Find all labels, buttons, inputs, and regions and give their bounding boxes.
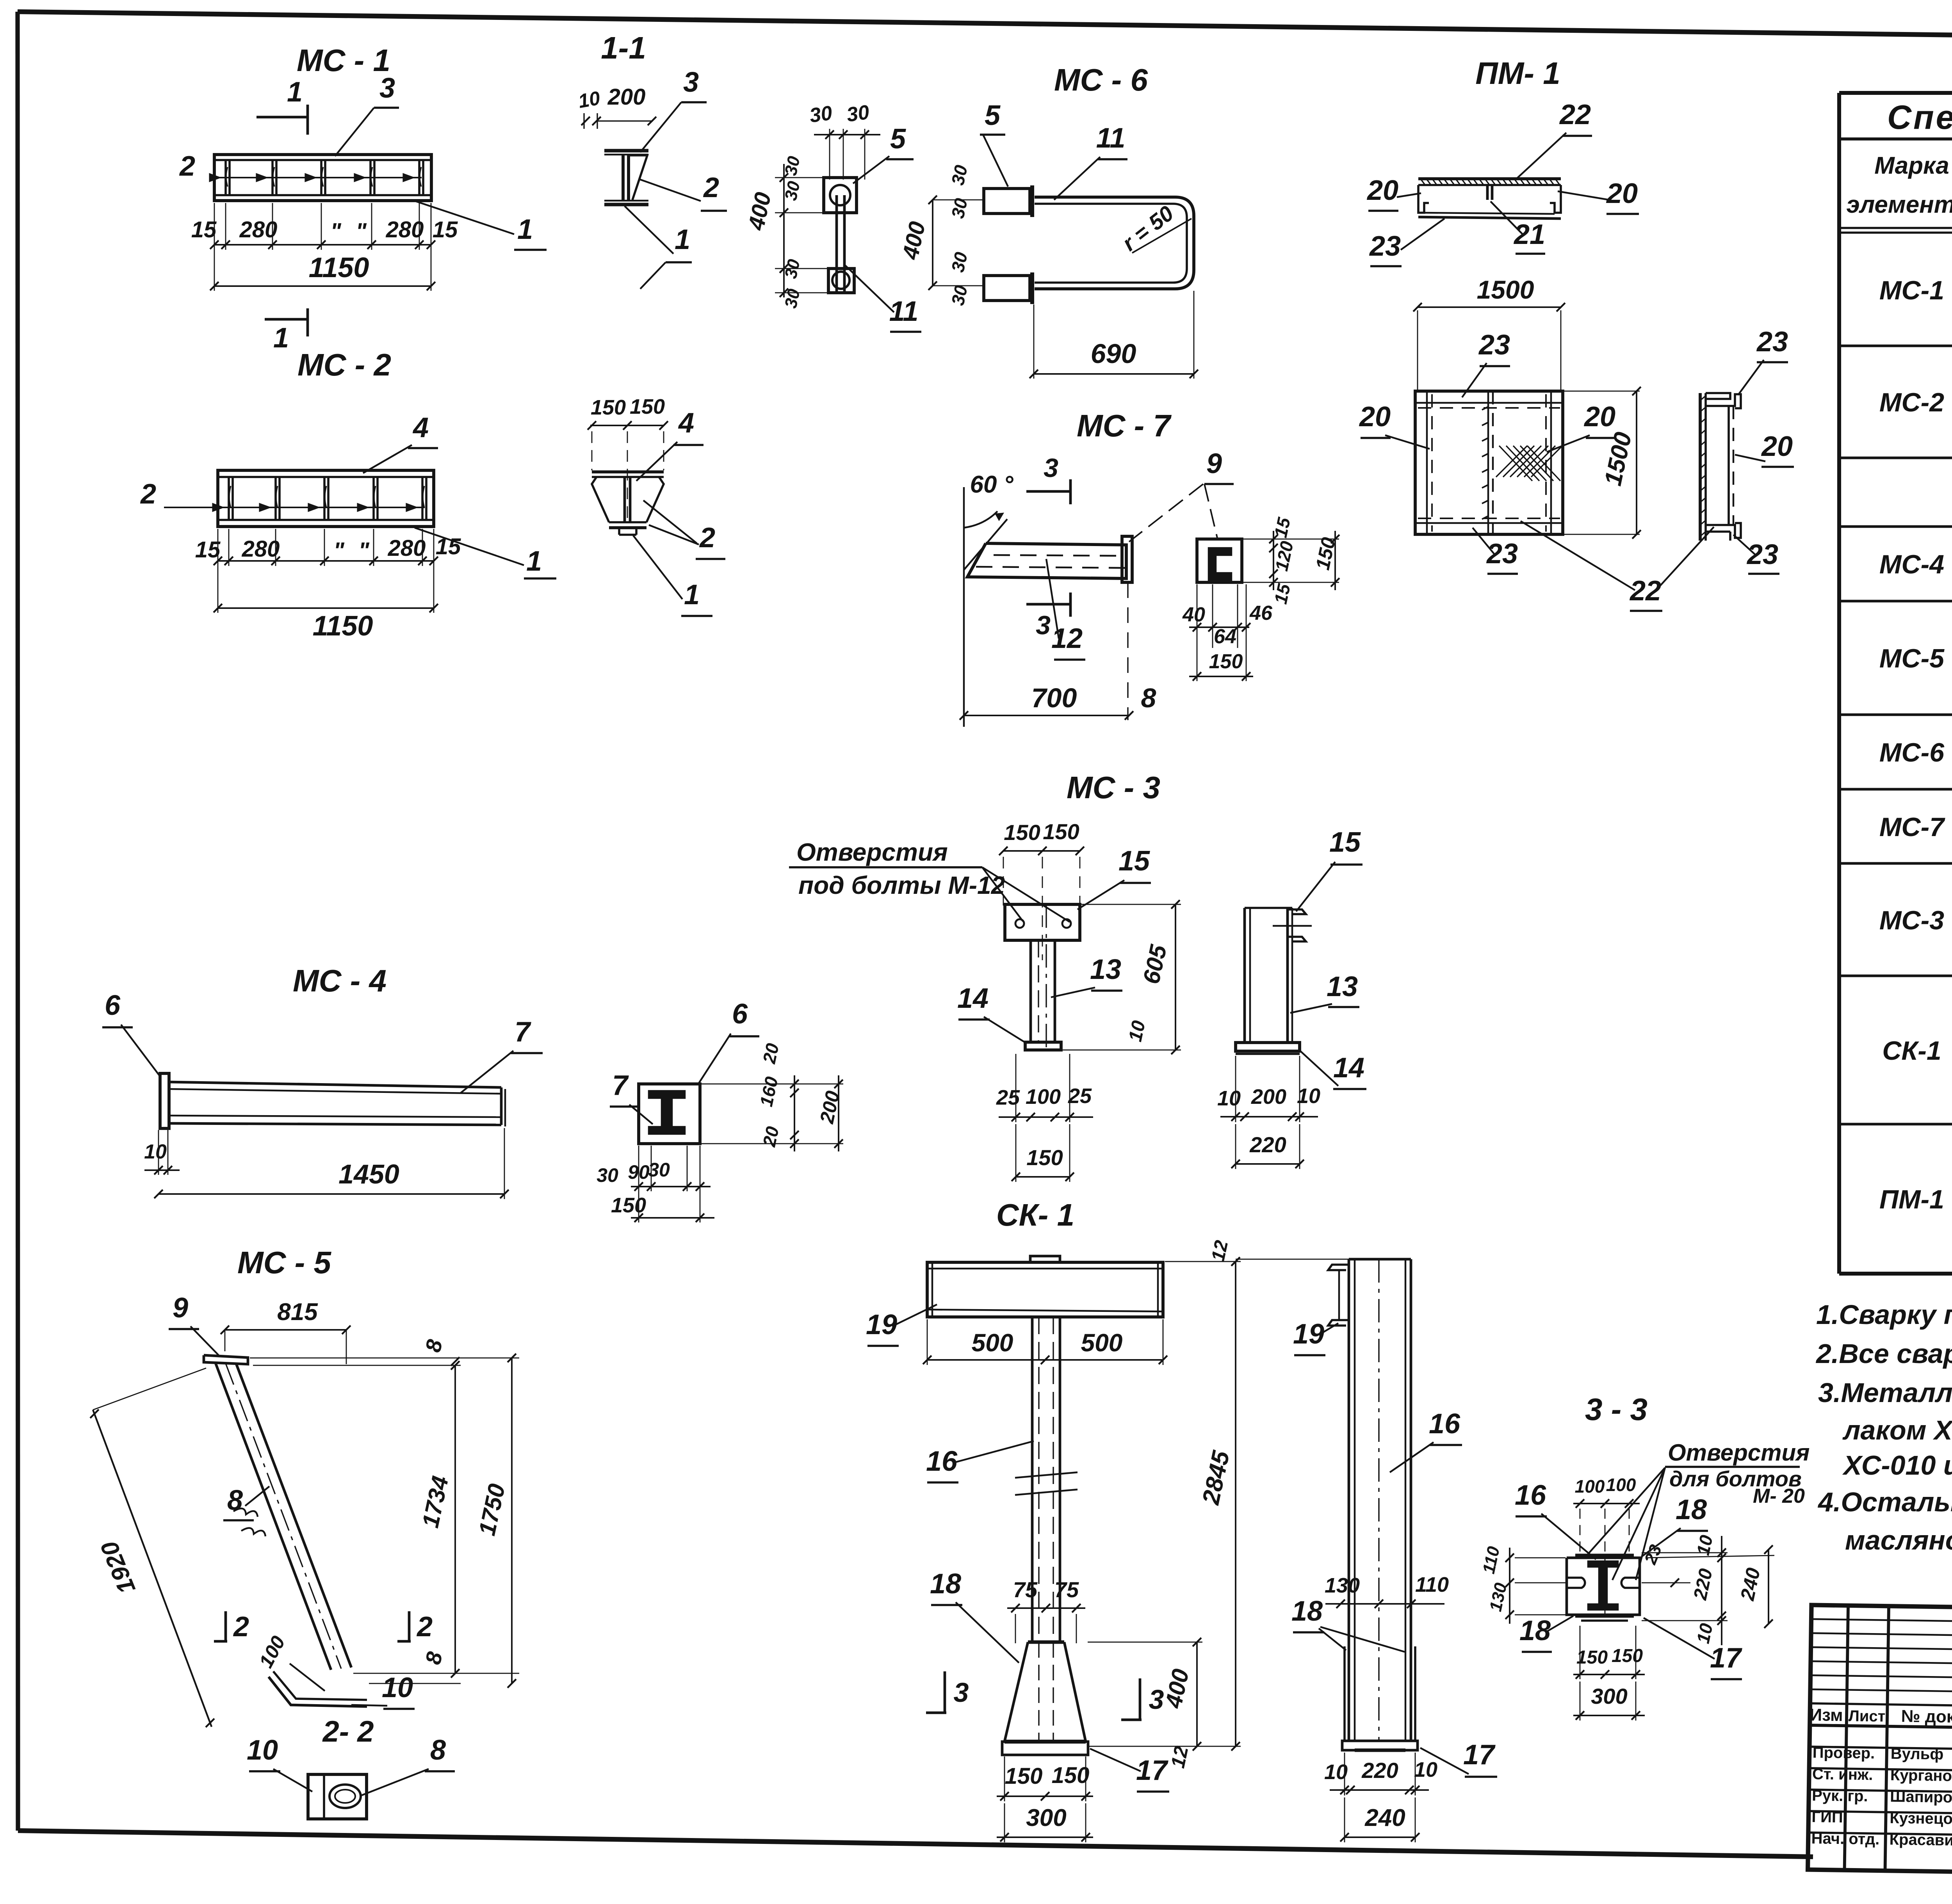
svg-text:15: 15 bbox=[195, 537, 221, 562]
svg-text:15: 15 bbox=[191, 217, 217, 242]
svg-text:60 °: 60 ° bbox=[970, 471, 1014, 498]
PM-1 elevation chequer plate pos22 hatch bbox=[1418, 177, 1561, 180]
CK-1 side base pos17 bbox=[1342, 1741, 1418, 1750]
svg-text:12: 12 bbox=[1167, 1744, 1192, 1770]
svg-text:": " bbox=[330, 219, 342, 244]
svg-text:100: 100 bbox=[1606, 1475, 1636, 1495]
svg-text:Изм: Изм bbox=[1810, 1705, 1843, 1725]
MC-4 beam pos7 bbox=[169, 1082, 501, 1087]
MC-5 dim 1750 bbox=[511, 1358, 513, 1683]
svg-text:100: 100 bbox=[1026, 1085, 1061, 1109]
svg-text:3: 3 bbox=[1036, 610, 1051, 640]
MC-1 stiffeners pos2 bbox=[224, 161, 227, 195]
svg-text:МС-6: МС-6 bbox=[1879, 738, 1945, 767]
3-3 dims 150 150 bbox=[1573, 1674, 1645, 1675]
PM-1 plan inner angle lines bbox=[1426, 391, 1428, 534]
3-3 side notches bbox=[1567, 1578, 1585, 1588]
CK-1 top beam pos19 bbox=[927, 1262, 1163, 1317]
svg-text:Вульф: Вульф bbox=[1890, 1745, 1943, 1763]
svg-text:3.Металлические марки МС-1 ÷ М: 3.Металлические марки МС-1 ÷ МС-6 окраши… bbox=[1818, 1377, 1952, 1408]
svg-text:МС-2: МС-2 bbox=[1879, 388, 1944, 417]
CK-1 top cap plate bbox=[1030, 1256, 1060, 1262]
MC-3 dims 150 150 bbox=[1003, 850, 1080, 852]
MC-3 base plate pos14 bbox=[1025, 1042, 1061, 1050]
svg-text:МС - 2: МС - 2 bbox=[297, 347, 391, 382]
svg-text:23: 23 bbox=[1369, 231, 1401, 262]
svg-text:10: 10 bbox=[144, 1141, 167, 1163]
PM-1 elevation frame pos20 bbox=[1418, 185, 1429, 213]
svg-text:30: 30 bbox=[808, 101, 834, 127]
MC-3 top plate pos15 bbox=[1005, 904, 1080, 940]
PM-1 plan outer square bbox=[1415, 391, 1563, 534]
MC-2 stiffeners pos2 bbox=[228, 478, 230, 519]
page border frame bbox=[18, 12, 1952, 44]
svg-text:ПМ-1: ПМ-1 bbox=[1879, 1185, 1944, 1214]
MC-3 side clip pos15 bbox=[1288, 909, 1306, 914]
svg-text:9: 9 bbox=[173, 1292, 188, 1324]
svg-text:Лист: Лист bbox=[1849, 1707, 1886, 1725]
svg-text:150: 150 bbox=[591, 396, 626, 419]
CK-1 dim 400 bbox=[1196, 1642, 1198, 1746]
1-1 I-beam section pos1 bbox=[604, 149, 648, 153]
svg-text:ГИП: ГИП bbox=[1811, 1808, 1843, 1826]
svg-text:1150: 1150 bbox=[313, 610, 373, 642]
title block bbox=[1807, 1605, 1952, 1900]
svg-text:МС-3: МС-3 bbox=[1879, 906, 1944, 935]
3-3 top plate pos17 bbox=[1575, 1554, 1634, 1557]
svg-text:150: 150 bbox=[1052, 1763, 1090, 1788]
PM-1 plan dim 1500 top bbox=[1418, 306, 1561, 308]
3-3 bottom plate bbox=[1575, 1614, 1634, 1618]
MC-1 section mark 1 lower bbox=[265, 318, 308, 321]
svg-text:МС - 6: МС - 6 bbox=[1054, 62, 1148, 97]
svg-text:12: 12 bbox=[1208, 1238, 1232, 1263]
svg-text:22: 22 bbox=[1559, 99, 1591, 130]
svg-text:10: 10 bbox=[1125, 1019, 1149, 1044]
svg-text:220: 220 bbox=[1249, 1132, 1286, 1157]
PM-1 plan dashed lines bbox=[1431, 394, 1433, 532]
svg-text:4.Остальные металлоконтрукции: 4.Остальные металлоконтрукции покрасить bbox=[1817, 1487, 1952, 1517]
svg-text:МС-1: МС-1 bbox=[1879, 276, 1944, 305]
svg-text:300: 300 bbox=[1026, 1804, 1066, 1831]
CK-1 side clip pos19 bbox=[1328, 1265, 1349, 1270]
MC-5 dim 1734 bbox=[454, 1365, 456, 1673]
svg-text:1: 1 bbox=[684, 579, 700, 610]
bolt bottom plate pos5 bbox=[828, 269, 854, 293]
MC-7 channel body pos12 bbox=[967, 543, 1126, 578]
svg-text:8: 8 bbox=[227, 1485, 243, 1516]
MC-5 tube break marks bbox=[233, 1509, 258, 1517]
svg-text:10: 10 bbox=[577, 87, 602, 112]
svg-text:под болты М-12: под болты М-12 bbox=[798, 871, 1005, 899]
svg-text:Красавин: Красавин bbox=[1889, 1831, 1952, 1849]
svg-text:Курганова: Курганова bbox=[1890, 1767, 1952, 1785]
CK-1 base plate pos17 bbox=[1002, 1742, 1088, 1755]
svg-text:МС - 7: МС - 7 bbox=[1077, 408, 1172, 443]
svg-text:МС - 3: МС - 3 bbox=[1067, 770, 1160, 805]
MC-7 dims below box bbox=[1189, 626, 1249, 628]
MC-4 dim 1450 bbox=[159, 1193, 504, 1195]
svg-text:МС - 5: МС - 5 bbox=[237, 1245, 332, 1280]
svg-text:лаком ХСЛ или ХС- 26 за 3р: лаком ХСЛ или ХС- 26 за 3раза по огрунто… bbox=[1842, 1415, 1952, 1445]
svg-text:1: 1 bbox=[675, 224, 690, 255]
svg-text:690: 690 bbox=[1091, 338, 1136, 369]
svg-text:2: 2 bbox=[416, 1611, 433, 1642]
svg-text:240: 240 bbox=[1364, 1804, 1405, 1831]
MC-5 top plate pos9 bbox=[204, 1355, 248, 1364]
3-3 dim 300 bbox=[1573, 1715, 1645, 1716]
svg-text:МС - 4: МС - 4 bbox=[293, 963, 386, 998]
svg-text:18: 18 bbox=[1291, 1596, 1323, 1627]
svg-text:75: 75 bbox=[1054, 1577, 1079, 1602]
svg-text:18: 18 bbox=[1676, 1494, 1707, 1525]
svg-text:7: 7 bbox=[612, 1070, 629, 1101]
MC-1 beam body bbox=[214, 155, 431, 201]
svg-text:4: 4 bbox=[412, 412, 429, 443]
svg-text:280: 280 bbox=[386, 217, 424, 242]
MC-7 end plate pos9 bbox=[1122, 536, 1132, 582]
svg-text:150: 150 bbox=[1004, 820, 1040, 845]
svg-text:": " bbox=[358, 538, 370, 563]
svg-text:20: 20 bbox=[1366, 175, 1398, 206]
svg-text:15: 15 bbox=[436, 534, 461, 559]
svg-text:16: 16 bbox=[926, 1446, 958, 1477]
svg-text:15: 15 bbox=[433, 217, 458, 242]
svg-text:17: 17 bbox=[1463, 1739, 1496, 1771]
svg-text:280: 280 bbox=[239, 217, 278, 242]
svg-text:9: 9 bbox=[1206, 448, 1222, 479]
svg-text:10: 10 bbox=[1414, 1758, 1437, 1781]
svg-text:150: 150 bbox=[611, 1194, 646, 1217]
section 6-7 dims below bbox=[631, 1186, 711, 1187]
svg-text:10: 10 bbox=[1297, 1084, 1320, 1108]
title block outer bbox=[1808, 1605, 1952, 1882]
CK-1 dim 2845 bbox=[1235, 1262, 1236, 1746]
svg-text:3: 3 bbox=[1044, 453, 1058, 483]
svg-text:3 - 3: 3 - 3 bbox=[1585, 1392, 1647, 1427]
PM-1 side bottom channel pos23 bbox=[1706, 523, 1741, 538]
MC-1 dim 1150 bbox=[214, 285, 431, 287]
CK-1 column break bbox=[1015, 1472, 1078, 1478]
3-3 body outline bbox=[1567, 1558, 1640, 1615]
svg-text:Марка: Марка bbox=[1874, 152, 1949, 179]
svg-text:Кузнецов: Кузнецов bbox=[1890, 1810, 1952, 1828]
CK-1 side dims 10 220 10 bbox=[1330, 1789, 1429, 1791]
MC-3 dim 605 bbox=[1175, 904, 1176, 1050]
svg-text:14: 14 bbox=[1333, 1052, 1364, 1084]
svg-text:815: 815 bbox=[277, 1299, 318, 1326]
MC-1 section mark 1 upper bbox=[256, 116, 308, 119]
svg-text:2: 2 bbox=[233, 1611, 249, 1642]
header double rule bbox=[1839, 227, 1952, 229]
svg-text:3: 3 bbox=[954, 1677, 969, 1708]
svg-text:14: 14 bbox=[957, 983, 988, 1014]
MC-1 dims row bbox=[214, 244, 431, 246]
svg-text:2- 2: 2- 2 bbox=[322, 1715, 374, 1748]
svg-text:1-1: 1-1 bbox=[601, 30, 646, 65]
MC-3 side dims bbox=[1220, 1116, 1318, 1117]
svg-text:8: 8 bbox=[430, 1735, 446, 1766]
CK-1 side column pos16 bbox=[1348, 1259, 1350, 1741]
svg-text:6: 6 bbox=[105, 990, 121, 1021]
bolt rod pos11 bbox=[835, 195, 838, 292]
svg-text:700: 700 bbox=[1031, 683, 1077, 713]
svg-text:75: 75 bbox=[1013, 1577, 1038, 1602]
svg-text:8: 8 bbox=[1141, 683, 1156, 713]
svg-text:100: 100 bbox=[1575, 1476, 1605, 1497]
MC-7 section mark 3 bottom bbox=[1026, 603, 1071, 606]
MC-7 section box pos9 bbox=[1197, 539, 1242, 582]
MC-2 arrow line pos2 bbox=[164, 507, 425, 508]
svg-text:Шапиро: Шапиро bbox=[1890, 1788, 1952, 1806]
svg-text:М- 20: М- 20 bbox=[1753, 1485, 1805, 1507]
MC-3 column pos13 bbox=[1029, 940, 1032, 1042]
svg-text:5: 5 bbox=[890, 123, 906, 155]
MC-6 lower sleeve pos5 bbox=[984, 276, 1030, 301]
svg-text:20: 20 bbox=[1583, 401, 1615, 432]
PM-1 plan dim 1500 right bbox=[1636, 391, 1637, 534]
svg-text:10: 10 bbox=[1217, 1087, 1241, 1110]
svg-text:Отверстия: Отверстия bbox=[1668, 1440, 1810, 1466]
svg-text:2: 2 bbox=[140, 479, 156, 510]
svg-text:30: 30 bbox=[845, 101, 871, 126]
CK-1 dim 300 bbox=[997, 1836, 1093, 1838]
CK-1 side dims 130 110 bbox=[1325, 1603, 1444, 1605]
svg-text:150: 150 bbox=[1576, 1647, 1608, 1668]
svg-text:1.Сварку производить электрода: 1.Сварку производить электродами Э-42. bbox=[1816, 1299, 1952, 1330]
svg-text:13: 13 bbox=[1327, 971, 1358, 1002]
CK-1 side plates pos18 bbox=[1343, 1646, 1346, 1741]
svg-text:10: 10 bbox=[382, 1672, 413, 1703]
svg-text:13: 13 bbox=[1090, 954, 1121, 985]
MC-6 upper sleeve pos5 bbox=[984, 189, 1030, 214]
svg-text:150: 150 bbox=[1026, 1145, 1063, 1170]
MC-6 dim 690 bbox=[1034, 373, 1194, 375]
svg-text:25: 25 bbox=[1068, 1084, 1092, 1108]
spec table title row bbox=[1839, 137, 1952, 141]
section 6-7 I beam glyph bbox=[649, 1091, 685, 1134]
MC-7 section mark 3 top bbox=[1026, 490, 1071, 493]
svg-text:4: 4 bbox=[678, 407, 694, 439]
MC-7 section dims right bbox=[1273, 531, 1274, 590]
svg-text:СК-1: СК-1 bbox=[1882, 1036, 1941, 1066]
MC-2 section trapezoid bbox=[592, 470, 664, 473]
3-3 right dims 10 220 10 bbox=[1721, 1536, 1722, 1645]
svg-text:15: 15 bbox=[1329, 827, 1361, 858]
PM-1 side view bbox=[1699, 393, 1702, 541]
svg-text:Ст. инж.: Ст. инж. bbox=[1812, 1765, 1873, 1783]
svg-text:23: 23 bbox=[1756, 326, 1788, 358]
svg-text:СК- 1: СК- 1 bbox=[996, 1198, 1074, 1232]
svg-text:11: 11 bbox=[1096, 123, 1126, 154]
CK-1 column pos16 bbox=[1031, 1317, 1034, 1642]
svg-text:2.Все сварные швы принимаютс: 2.Все сварные швы принимаются hш = 6мм. bbox=[1815, 1338, 1952, 1369]
svg-text:110: 110 bbox=[1415, 1573, 1449, 1596]
MC-3 dims below bbox=[999, 1116, 1093, 1118]
svg-text:МС-4: МС-4 bbox=[1879, 550, 1944, 579]
svg-text:3: 3 bbox=[683, 67, 699, 98]
svg-text:20: 20 bbox=[759, 1041, 783, 1066]
svg-text:500: 500 bbox=[972, 1329, 1013, 1357]
svg-text:150: 150 bbox=[1209, 650, 1243, 673]
svg-text:ХС-010 или ХСЛ-26 за 2раза: ХС-010 или ХСЛ-26 за 2раза. bbox=[1842, 1450, 1952, 1480]
svg-text:№ докум.: № докум. bbox=[1901, 1706, 1952, 1727]
svg-text:10: 10 bbox=[247, 1735, 278, 1766]
svg-text:20: 20 bbox=[1761, 431, 1793, 462]
svg-text:МС-5: МС-5 bbox=[1879, 644, 1945, 673]
svg-text:150: 150 bbox=[630, 395, 665, 418]
MC-5 dim 1920 bbox=[93, 1410, 212, 1727]
MC-6 dim 400 bbox=[932, 200, 933, 286]
svg-text:200: 200 bbox=[607, 84, 646, 110]
CK-1 dim 75 75 bbox=[1007, 1607, 1085, 1609]
svg-text:40: 40 bbox=[1182, 603, 1205, 626]
svg-text:18: 18 bbox=[1519, 1615, 1551, 1646]
svg-text:280: 280 bbox=[242, 536, 280, 562]
svg-text:7: 7 bbox=[515, 1016, 531, 1048]
MC-1 arrow line pos2 bbox=[213, 177, 422, 178]
spec table outer bbox=[1839, 91, 1952, 95]
title block left grid bbox=[1845, 1605, 1848, 1870]
3-3 dim 240 bbox=[1768, 1550, 1769, 1624]
svg-text:2: 2 bbox=[699, 522, 715, 553]
svg-text:150: 150 bbox=[1612, 1646, 1643, 1666]
MC-2 beam body bbox=[218, 470, 434, 527]
svg-text:": " bbox=[356, 219, 367, 244]
svg-text:Провер.: Провер. bbox=[1812, 1744, 1875, 1762]
MC-2 dims row bbox=[218, 560, 434, 562]
svg-text:2: 2 bbox=[179, 151, 195, 182]
bolt dim 400 bbox=[783, 164, 785, 297]
svg-text:20: 20 bbox=[759, 1125, 783, 1149]
svg-text:23: 23 bbox=[1478, 329, 1510, 361]
svg-text:46: 46 bbox=[1249, 602, 1273, 625]
MC-5 bottom bracket pos10 bbox=[269, 1677, 367, 1706]
svg-text:": " bbox=[333, 538, 345, 563]
svg-text:Рук. гр.: Рук. гр. bbox=[1812, 1787, 1868, 1805]
svg-text:25: 25 bbox=[996, 1086, 1020, 1109]
svg-text:12: 12 bbox=[1051, 623, 1083, 654]
CK-1 dim 150 150 bbox=[997, 1795, 1093, 1797]
svg-text:64: 64 bbox=[1214, 625, 1236, 648]
block separator lines bbox=[1839, 345, 1952, 347]
CK-1 base funnel pos18 bbox=[1004, 1642, 1028, 1742]
section 6-7 dims right bbox=[794, 1075, 795, 1151]
CK-1 side dim 240 bbox=[1345, 1836, 1415, 1838]
svg-text:18: 18 bbox=[930, 1568, 961, 1600]
svg-text:280: 280 bbox=[388, 536, 426, 561]
svg-text:2: 2 bbox=[703, 172, 719, 203]
MC-7 left reference line bbox=[963, 487, 965, 727]
svg-text:1150: 1150 bbox=[309, 252, 369, 283]
svg-text:500: 500 bbox=[1081, 1329, 1123, 1357]
svg-text:19: 19 bbox=[866, 1309, 897, 1340]
MC-4 end plate pos6 bbox=[160, 1073, 169, 1128]
svg-text:150: 150 bbox=[1043, 819, 1079, 844]
PM-1 side top channel pos23 bbox=[1706, 394, 1741, 408]
svg-text:6: 6 bbox=[732, 998, 748, 1030]
svg-text:22: 22 bbox=[1629, 575, 1661, 607]
svg-text:300: 300 bbox=[1591, 1684, 1627, 1708]
MC-2 dim 1150 bbox=[218, 607, 434, 609]
svg-text:Отверстия: Отверстия bbox=[796, 838, 948, 866]
svg-text:130: 130 bbox=[1325, 1574, 1360, 1597]
svg-text:20: 20 bbox=[1606, 178, 1638, 209]
svg-text:30: 30 bbox=[597, 1164, 618, 1186]
svg-text:3: 3 bbox=[379, 73, 395, 104]
MC-6 U rod pos11 bbox=[1035, 197, 1194, 289]
3-3 left dims 110 130 bbox=[1509, 1548, 1510, 1624]
PM-1 plan weld hatch pos22 bbox=[1496, 446, 1527, 477]
svg-text:20: 20 bbox=[1359, 401, 1391, 432]
3-3 I beam glyph pos16 bbox=[1588, 1561, 1618, 1610]
MC-3 side base pos14 bbox=[1236, 1043, 1300, 1051]
svg-text:1: 1 bbox=[517, 214, 533, 245]
svg-text:16: 16 bbox=[1429, 1408, 1460, 1440]
svg-text:1500: 1500 bbox=[1477, 275, 1534, 304]
svg-text:Нач. отд.: Нач. отд. bbox=[1811, 1830, 1879, 1848]
svg-text:23: 23 bbox=[1486, 538, 1518, 569]
3-3 dims 100 100 bbox=[1573, 1503, 1640, 1504]
PM-1 elevation strip pos21 bbox=[1486, 185, 1489, 200]
svg-text:МС-7: МС-7 bbox=[1879, 812, 1945, 842]
svg-text:21: 21 bbox=[1513, 219, 1545, 250]
CK-1 section marks 3 bbox=[944, 1671, 946, 1713]
svg-text:масляной краской за 2раза: масляной краской за 2раза по огрунтовке. bbox=[1845, 1525, 1952, 1555]
svg-text:1: 1 bbox=[273, 322, 289, 354]
svg-text:5: 5 bbox=[985, 100, 1001, 131]
MC-5 tube pos8 bbox=[216, 1363, 331, 1670]
svg-text:1: 1 bbox=[287, 77, 303, 108]
svg-text:1: 1 bbox=[526, 546, 542, 577]
svg-text:ПМ- 1: ПМ- 1 bbox=[1475, 56, 1560, 91]
MC-5 dim 815 bbox=[225, 1329, 346, 1331]
CK-1 dim 500 500 bbox=[927, 1359, 1163, 1361]
1-1 gusset pos3 bbox=[630, 155, 647, 200]
svg-text:220: 220 bbox=[1361, 1758, 1398, 1783]
bolt top plate pos5 bbox=[824, 178, 857, 213]
svg-text:МС - 1: МС - 1 bbox=[297, 43, 390, 78]
svg-text:200: 200 bbox=[1251, 1085, 1286, 1109]
svg-text:150: 150 bbox=[1005, 1763, 1043, 1789]
svg-text:15: 15 bbox=[1118, 845, 1150, 877]
PM-1 plan center strip pos21 bbox=[1487, 391, 1489, 534]
svg-text:1450: 1450 bbox=[338, 1159, 399, 1189]
svg-text:16: 16 bbox=[1515, 1480, 1546, 1511]
section 6-7 box bbox=[639, 1084, 700, 1144]
MC-3 side view channel pos13 bbox=[1243, 908, 1246, 1043]
MC-2 section dims 150 150 bbox=[590, 425, 664, 426]
svg-text:элемента.: элемента. bbox=[1846, 191, 1952, 218]
MC-5 section marks 2 bbox=[224, 1611, 227, 1641]
MC-7 dim 700 bbox=[964, 715, 1129, 716]
svg-text:23: 23 bbox=[1746, 539, 1778, 570]
svg-text:Спецификация металла на 1 ма: Спецификация металла на 1 марку. bbox=[1887, 99, 1952, 136]
section 2-2 plate bbox=[308, 1774, 367, 1819]
